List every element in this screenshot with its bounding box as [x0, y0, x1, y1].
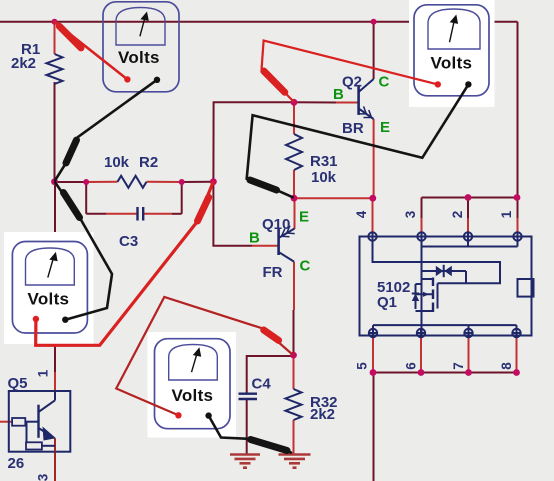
pin 8 terminal	[512, 329, 520, 337]
wire VM1 black probe handle	[66, 140, 77, 163]
wire VM3 black probe lead	[55, 183, 112, 320]
IC mounting tab on right edge	[518, 279, 534, 297]
diode D1 bidirectional TVS inside IC	[422, 265, 467, 284]
wire Q5 collector red segment	[54, 372, 56, 400]
pin 7 terminal	[464, 329, 472, 337]
ground symbol under R32	[279, 455, 311, 468]
svg-text:6: 6	[404, 362, 419, 370]
wire VM3 red probe handle	[198, 197, 209, 221]
VM3 black probe terminal	[62, 317, 68, 323]
node above pin 1	[514, 194, 521, 201]
IC internal rail pins 1-2-3	[422, 237, 518, 280]
wire Q2 base segment	[294, 101, 336, 103]
wire R31 bottom lead to node E	[293, 170, 295, 198]
svg-text:Volts: Volts	[28, 290, 70, 309]
pin 4 terminal	[368, 232, 376, 240]
wire Q2 collector up to top rail	[373, 22, 375, 79]
node R2/C3 left junction	[83, 179, 89, 185]
svg-text:Volts: Volts	[431, 54, 473, 73]
wire node B up to Q2 base corner	[213, 102, 294, 181]
svg-text:C: C	[300, 258, 311, 275]
svg-text:C3: C3	[119, 233, 138, 250]
wire R1 top segment	[54, 22, 56, 54]
wire VM2 black probe handle	[250, 180, 277, 190]
svg-text:3: 3	[36, 473, 51, 481]
node on Q2 base wire	[291, 99, 298, 106]
svg-text:B: B	[249, 230, 260, 247]
svg-text:BR: BR	[342, 120, 364, 137]
wire C3 loop right vertical	[181, 182, 183, 214]
pin 3 terminal	[417, 232, 425, 240]
resistor R31	[286, 134, 302, 170]
wire pin 6 stub	[420, 337, 422, 373]
wire VM3 red probe lead	[36, 183, 213, 346]
wire C3 red lead left	[106, 213, 137, 215]
VM2 black probe terminal	[465, 81, 471, 87]
svg-text:10k: 10k	[104, 154, 130, 171]
wire R2 right segment to node B	[182, 181, 214, 183]
svg-text:B: B	[333, 86, 344, 103]
wire R32 top lead	[293, 355, 295, 389]
VM4 red probe terminal	[175, 412, 181, 418]
wire C3 red lead right	[144, 213, 173, 215]
wire VM2 black probe lead	[247, 84, 469, 197]
svg-text:4: 4	[354, 210, 369, 218]
svg-text:Q2: Q2	[342, 74, 362, 91]
wire VM1 red probe handle	[59, 26, 81, 48]
IC internal bottom rail pins 5-8	[373, 325, 517, 337]
wire VM1 black probe lead	[55, 80, 157, 180]
wire VM4 black probe handle	[251, 440, 288, 451]
svg-text:R2: R2	[139, 154, 158, 171]
node below pin 7	[465, 369, 472, 376]
wire pin 8 stub	[516, 337, 518, 373]
node A left junction R1/R2	[51, 178, 58, 185]
resistor R32	[286, 389, 302, 420]
svg-text:FR: FR	[263, 264, 283, 281]
svg-text:26: 26	[8, 455, 25, 472]
node B right junction of R2 network	[210, 178, 217, 185]
voltmeter VM2 top-right on white panel	[409, 0, 495, 107]
wire VM4 red probe handle	[264, 330, 279, 340]
wire VM3 black probe handle	[63, 193, 79, 218]
wire Q10 collector red segment	[293, 262, 295, 310]
node E at R31 bottom	[291, 195, 298, 202]
node below pin 5	[370, 369, 377, 376]
svg-text:Q5: Q5	[8, 375, 28, 392]
wire R32 bottom lead to ground	[293, 420, 295, 454]
svg-text:E: E	[380, 119, 390, 136]
capacitor C3	[138, 207, 144, 221]
voltmeter VM4 bottom-middle on white panel	[148, 332, 237, 438]
svg-text:5: 5	[355, 362, 370, 370]
wire VM4 black probe lead	[209, 416, 291, 453]
transistor Q1 mosfet symbol inside IC	[412, 278, 438, 313]
VM4 black probe terminal	[205, 412, 211, 418]
wire Q5 base lead from left edge	[0, 421, 12, 423]
wire Q10 base red lead	[252, 245, 279, 247]
wire pin 5 stub	[372, 337, 374, 373]
node 4 above pin 4	[369, 195, 376, 202]
transistor Q5 (digital transistor in box)	[9, 391, 71, 452]
svg-text:E: E	[299, 209, 309, 226]
node below pin 8	[513, 369, 520, 376]
node at R1 top on supply rail	[52, 19, 58, 25]
wire bottom left column to edge	[373, 373, 375, 481]
svg-text:2k2: 2k2	[310, 406, 335, 423]
svg-text:8: 8	[499, 362, 514, 370]
wire R1 bottom segment	[54, 82, 56, 182]
svg-text:Volts: Volts	[118, 48, 160, 67]
svg-text:1: 1	[499, 210, 514, 218]
wire VM4 red probe lead	[116, 297, 292, 415]
resistor R1	[47, 54, 63, 84]
ground symbol under C4	[230, 455, 260, 468]
voltmeter VM1 top-left (transparent)	[103, 2, 179, 92]
pin 1 terminal	[513, 232, 521, 240]
svg-text:Volts: Volts	[172, 386, 214, 405]
wire C3 loop bottom right	[172, 213, 182, 215]
transistor Q2	[358, 79, 373, 119]
svg-text:Q1: Q1	[377, 294, 397, 311]
wire node F to C4 branch	[247, 356, 294, 393]
VM1 red probe terminal	[124, 76, 130, 82]
pin 6 terminal	[417, 329, 425, 337]
wire VM2 red probe handle	[264, 71, 285, 92]
IC internal source column pin 6	[421, 279, 423, 337]
wire node B down to Q10 base corner	[213, 182, 252, 246]
VM2 red probe terminal	[435, 81, 441, 87]
node R2/C3 right junction	[179, 179, 185, 185]
capacitor C4	[239, 394, 258, 399]
wire pin 3 stub	[421, 198, 423, 219]
svg-text:C: C	[379, 74, 390, 91]
VM1 black probe terminal	[154, 77, 160, 83]
wire R2 red lead right	[147, 181, 182, 183]
voltmeter VM3 left on white panel	[4, 232, 94, 344]
wire right column from top rail down to pin1 junction	[517, 22, 519, 198]
wire Q10 emitter column	[294, 198, 296, 229]
resistor R2	[118, 176, 147, 188]
svg-text:C4: C4	[252, 376, 272, 393]
IC internal gate feed from pin 4	[373, 237, 501, 284]
wire Q2 base red lead	[336, 102, 359, 104]
wire node E to node 4 horizontal	[294, 197, 373, 199]
wire pin 2 stub	[467, 198, 469, 219]
wire node 4 down to pin 4	[372, 198, 374, 233]
wire pin1 junction rail	[422, 197, 517, 199]
node above pin 2	[465, 194, 472, 201]
pin 2 terminal	[464, 232, 472, 240]
wire VM1 red probe lead	[55, 22, 128, 80]
node below pin 6	[418, 369, 425, 376]
wire Q5 emitter below box	[54, 452, 56, 481]
node F at R32 top	[290, 352, 297, 359]
wire Q2 emitter down to node 4	[373, 119, 375, 198]
op-amp U1 : power mosfet IC Q1 package outline	[360, 237, 532, 336]
wire R31 top lead	[293, 102, 295, 134]
wire C4 bottom lead to ground	[246, 400, 248, 454]
svg-text:Q10: Q10	[262, 216, 290, 233]
wire C3 loop left vertical	[85, 182, 87, 214]
svg-text:10k: 10k	[311, 169, 337, 186]
wire Q10 collector down to node F	[293, 310, 295, 355]
svg-text:2: 2	[450, 211, 465, 219]
wire pin 1 stub	[517, 198, 519, 219]
svg-text:R31: R31	[310, 153, 338, 170]
wire pin 7 stub	[468, 337, 470, 373]
wire C3 loop bottom left	[86, 213, 106, 215]
wire top supply rail	[0, 21, 518, 23]
pin 5 terminal	[369, 329, 377, 337]
wire left column node A down to Q5 collector	[54, 182, 56, 372]
svg-text:2k2: 2k2	[11, 55, 36, 72]
transistor Q10	[279, 226, 295, 262]
node at Q2 collector on supply rail	[371, 19, 377, 25]
svg-text:1: 1	[36, 369, 51, 377]
wire R2 left segment	[55, 181, 87, 183]
svg-text:3: 3	[403, 210, 418, 218]
svg-text:7: 7	[451, 362, 466, 370]
VM3 red probe terminal	[33, 316, 39, 322]
wire VM2 red probe lead	[262, 41, 438, 102]
wire bottom rail joining pins 5-8	[373, 372, 517, 374]
wire R2 red lead left	[86, 181, 117, 183]
